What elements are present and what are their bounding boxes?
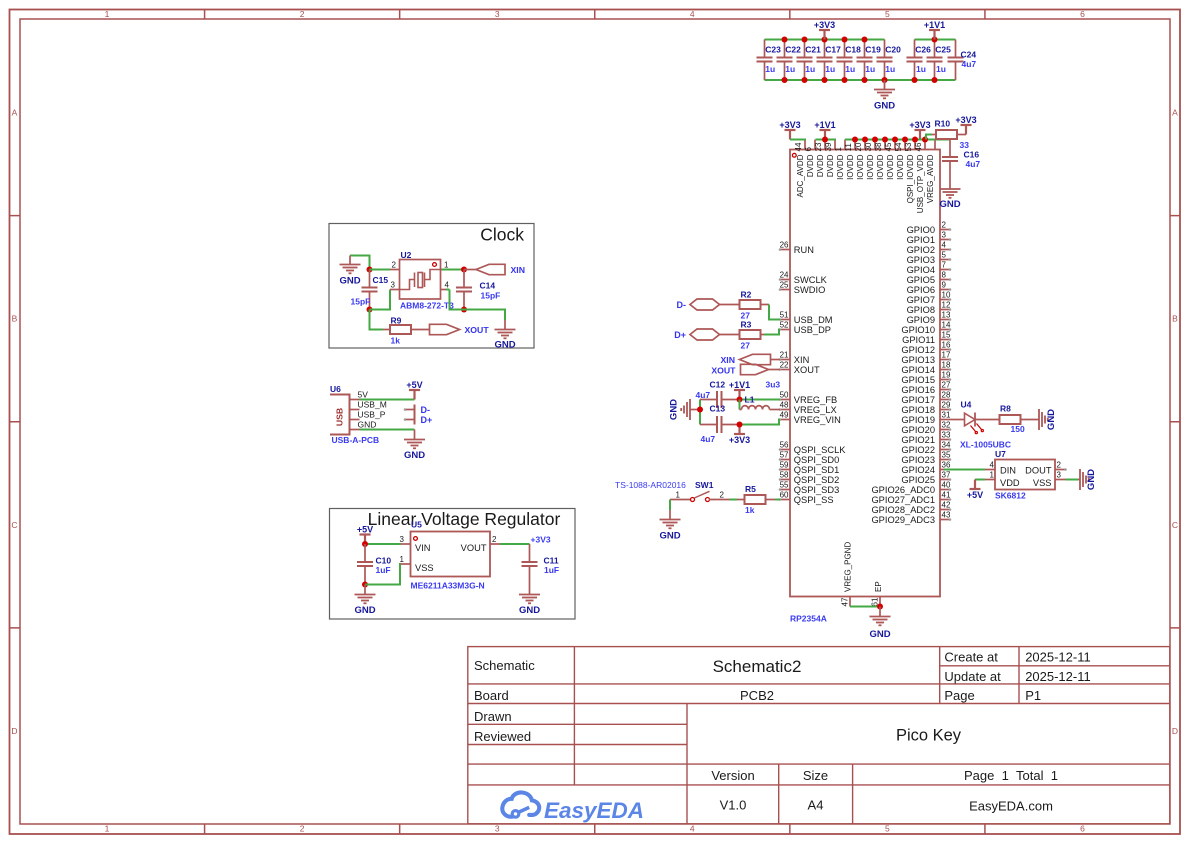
ground at U7 VSS xyxy=(1078,469,1097,490)
svg-text:VOUT: VOUT xyxy=(461,543,487,553)
capacitor C22 1u xyxy=(777,40,802,81)
pin 10 GPIO7 xyxy=(907,291,952,305)
svg-text:31: 31 xyxy=(942,411,951,420)
svg-text:22: 22 xyxy=(780,361,789,370)
svg-text:XIN: XIN xyxy=(794,355,810,365)
pin 54 IOVDD (top) xyxy=(894,140,905,180)
pin 49 VREG_VIN xyxy=(779,411,841,425)
svg-text:3: 3 xyxy=(391,281,396,290)
svg-text:XOUT: XOUT xyxy=(465,325,490,335)
svg-text:SWDIO: SWDIO xyxy=(794,285,826,295)
wire IOVDD +3V3 rail xyxy=(845,137,950,143)
capacitor C15 15pF xyxy=(351,267,389,313)
svg-text:GPIO20: GPIO20 xyxy=(901,425,935,435)
svg-text:19: 19 xyxy=(942,371,951,380)
svg-text:42: 42 xyxy=(942,501,951,510)
wire VREG_FB xyxy=(737,397,781,410)
svg-text:2: 2 xyxy=(300,9,305,19)
pin 18 GPIO14 xyxy=(901,361,951,375)
pin 47 VREG_AVDD (top) xyxy=(926,140,935,204)
svg-text:18: 18 xyxy=(942,361,951,370)
pin 42 GPIO28_ADC2 xyxy=(871,501,951,515)
svg-text:GPIO11: GPIO11 xyxy=(902,335,935,345)
svg-text:24: 24 xyxy=(780,271,789,280)
power flag +3V3 at VREG_VIN xyxy=(729,425,750,446)
svg-text:52: 52 xyxy=(780,321,789,330)
svg-text:D: D xyxy=(1172,726,1178,736)
svg-text:C24: C24 xyxy=(961,50,977,60)
svg-text:C20: C20 xyxy=(885,45,901,55)
svg-text:C21: C21 xyxy=(805,45,821,55)
svg-text:GPIO24: GPIO24 xyxy=(901,465,935,475)
svg-text:56: 56 xyxy=(780,441,789,450)
pin 43 GPIO29_ADC3 xyxy=(871,511,951,525)
capacitor C10 1uF xyxy=(357,544,391,588)
svg-text:XIN: XIN xyxy=(721,355,735,365)
power flag +5V at regulator xyxy=(357,525,373,545)
svg-text:40: 40 xyxy=(942,481,951,490)
pin 47 VREG_PGND (bottom) xyxy=(841,542,853,607)
svg-text:4: 4 xyxy=(942,241,947,250)
svg-text:48: 48 xyxy=(780,401,789,410)
svg-text:VREG_PGND: VREG_PGND xyxy=(844,542,853,592)
svg-text:GND: GND xyxy=(874,100,895,111)
svg-text:GND: GND xyxy=(1086,469,1097,490)
svg-text:4: 4 xyxy=(990,461,995,470)
svg-text:B: B xyxy=(12,314,18,324)
pin 20 IOVDD (top) xyxy=(854,140,865,180)
svg-text:150: 150 xyxy=(1011,424,1025,434)
title block table xyxy=(468,647,1170,824)
pin 44 ADC_AVDD (top) xyxy=(794,140,805,198)
pin 38 IOVDD (top) xyxy=(874,140,885,180)
svg-text:GPIO21: GPIO21 xyxy=(901,435,935,445)
svg-text:VREG_FB: VREG_FB xyxy=(794,395,837,405)
svg-text:2: 2 xyxy=(720,491,725,500)
svg-text:QSPI_SS: QSPI_SS xyxy=(794,495,834,505)
svg-text:2: 2 xyxy=(1057,461,1062,470)
svg-text:1k: 1k xyxy=(745,505,755,515)
wire VREG filter vertical xyxy=(697,400,703,425)
svg-text:GPIO10: GPIO10 xyxy=(901,325,935,335)
capacitor C23 1u xyxy=(757,40,782,81)
LED U4 XL-1005UBC xyxy=(960,400,1011,450)
svg-text:C15: C15 xyxy=(373,275,389,285)
wire U6 5V to +5V xyxy=(360,399,415,401)
svg-text:27: 27 xyxy=(741,341,751,351)
svg-text:7: 7 xyxy=(942,261,947,270)
svg-text:GND: GND xyxy=(404,450,425,461)
pin 33 GPIO21 xyxy=(901,431,951,445)
wire GND rail of capacitor bank xyxy=(765,79,956,81)
svg-text:1u: 1u xyxy=(916,64,926,74)
svg-text:DVDD: DVDD xyxy=(826,154,835,177)
pin 27 GPIO16 xyxy=(901,381,951,395)
pin 58 QSPI_SD2 xyxy=(779,471,840,485)
svg-text:R8: R8 xyxy=(1000,404,1011,414)
pin 53 QSPI_IOVDD (top) xyxy=(904,140,915,204)
svg-text:U2: U2 xyxy=(401,250,412,260)
svg-text:37: 37 xyxy=(942,471,951,480)
power flag +5V at U7 VDD xyxy=(967,480,985,501)
svg-text:15pF: 15pF xyxy=(481,291,501,301)
svg-text:36: 36 xyxy=(942,461,951,470)
svg-text:GPIO3: GPIO3 xyxy=(907,255,935,265)
svg-text:17: 17 xyxy=(942,351,951,360)
capacitor C14 15pF xyxy=(456,270,500,313)
svg-text:C25: C25 xyxy=(935,45,951,55)
svg-text:R10: R10 xyxy=(935,119,951,129)
svg-text:Pico Key: Pico Key xyxy=(896,727,962,745)
svg-text:2: 2 xyxy=(942,221,947,230)
svg-text:DIN: DIN xyxy=(1000,466,1016,476)
wire U6 GND xyxy=(360,430,415,440)
svg-text:1: 1 xyxy=(676,491,681,500)
svg-text:XOUT: XOUT xyxy=(794,365,820,375)
svg-text:USB_M: USB_M xyxy=(358,400,387,410)
svg-text:GND: GND xyxy=(659,531,680,542)
svg-text:C22: C22 xyxy=(785,45,801,55)
svg-text:1u: 1u xyxy=(845,64,855,74)
svg-text:1u: 1u xyxy=(825,64,835,74)
pin 57 QSPI_SD0 xyxy=(779,451,840,465)
svg-text:GPIO28_ADC2: GPIO28_ADC2 xyxy=(871,505,935,515)
pin 61 EP (bottom) xyxy=(871,581,884,606)
pin 32 GPIO20 xyxy=(901,421,951,435)
pin 55 QSPI_SD3 xyxy=(779,481,840,495)
svg-text:D-: D- xyxy=(421,405,431,415)
pin 13 GPIO9 xyxy=(907,311,952,325)
wire +5V to U5 VIN xyxy=(362,541,401,547)
svg-text:USB_P: USB_P xyxy=(358,410,386,420)
power flag +1V1 capacitor bank xyxy=(924,20,945,40)
svg-text:1: 1 xyxy=(444,261,449,270)
resistor R10 33 xyxy=(932,119,969,151)
svg-text:38: 38 xyxy=(874,142,883,151)
svg-text:GND: GND xyxy=(358,420,377,430)
pin 40 GPIO26_ADC0 xyxy=(871,481,951,495)
svg-text:USB_DM: USB_DM xyxy=(794,315,833,325)
svg-text:47: 47 xyxy=(841,597,850,606)
svg-text:+3V3: +3V3 xyxy=(814,20,835,30)
svg-text:30: 30 xyxy=(864,142,873,151)
svg-text:5: 5 xyxy=(885,9,890,19)
svg-text:EP: EP xyxy=(874,581,883,592)
ground below C16 xyxy=(939,189,960,210)
svg-text:GPIO0: GPIO0 xyxy=(907,225,935,235)
svg-text:U5: U5 xyxy=(411,520,422,530)
svg-text:28: 28 xyxy=(942,391,951,400)
svg-text:+3V3: +3V3 xyxy=(955,115,976,125)
svg-text:D: D xyxy=(11,726,17,736)
svg-text:9: 9 xyxy=(942,281,947,290)
svg-text:TS-1088-AR02016: TS-1088-AR02016 xyxy=(615,480,686,490)
svg-text:+3V3: +3V3 xyxy=(779,120,800,130)
wire C10 to U5 VSS xyxy=(365,564,401,585)
svg-text:Clock: Clock xyxy=(480,225,524,245)
pin 41 GPIO27_ADC1 xyxy=(871,491,951,505)
pin 52 USB_DP xyxy=(779,321,831,335)
svg-text:IOVDD: IOVDD xyxy=(886,154,895,180)
svg-text:13: 13 xyxy=(942,311,951,320)
svg-text:C11: C11 xyxy=(544,556,559,566)
svg-text:Linear Voltage Regulator: Linear Voltage Regulator xyxy=(368,509,561,529)
svg-text:Update at: Update at xyxy=(944,669,1001,684)
svg-text:4u7: 4u7 xyxy=(966,159,981,169)
svg-text:IOVDD: IOVDD xyxy=(876,154,885,180)
svg-text:+1V1: +1V1 xyxy=(729,380,750,390)
pin 16 GPIO12 xyxy=(901,341,951,355)
svg-text:Schematic2: Schematic2 xyxy=(713,657,802,676)
svg-text:27: 27 xyxy=(942,381,951,390)
wire VREG_PGND to EP xyxy=(850,604,883,610)
svg-text:GPIO1: GPIO1 xyxy=(907,235,935,245)
svg-text:GPIO27_ADC1: GPIO27_ADC1 xyxy=(871,495,935,505)
svg-text:C12: C12 xyxy=(710,380,726,390)
pin 12 GPIO8 xyxy=(907,301,952,315)
svg-text:EasyEDA: EasyEDA xyxy=(544,798,644,823)
svg-text:1: 1 xyxy=(105,824,110,834)
pin 11 IOVDD (top) xyxy=(844,140,855,180)
svg-text:GPIO6: GPIO6 xyxy=(907,285,935,295)
power flag +3V3 capacitor bank xyxy=(814,20,835,40)
port D+ (to IC) xyxy=(674,329,739,340)
svg-text:+5V: +5V xyxy=(967,490,983,500)
svg-text:SWCLK: SWCLK xyxy=(794,275,828,285)
svg-text:U6: U6 xyxy=(330,384,341,394)
pin 37 GPIO25 xyxy=(901,471,951,485)
svg-text:USB_OTP_VDD: USB_OTP_VDD xyxy=(916,154,925,213)
svg-text:4: 4 xyxy=(690,824,695,834)
svg-text:54: 54 xyxy=(894,142,903,151)
svg-text:U4: U4 xyxy=(961,400,972,410)
wire C15 to U2 pin 2 xyxy=(370,269,391,271)
pin 56 QSPI_SCLK xyxy=(779,441,847,455)
wire U5 VOUT to +3V3 xyxy=(500,543,530,545)
svg-text:3: 3 xyxy=(1057,471,1062,480)
wire GPIO24 to U7 DIN xyxy=(944,469,985,471)
svg-text:C26: C26 xyxy=(915,45,931,55)
ground below EP xyxy=(869,607,890,641)
pin 4 GPIO2 xyxy=(907,241,952,255)
capacitor C12 4u7 xyxy=(696,380,740,409)
power flag +3V3 at R10 xyxy=(955,115,976,135)
svg-text:GPIO9: GPIO9 xyxy=(907,315,935,325)
svg-text:R2: R2 xyxy=(741,290,752,300)
svg-text:57: 57 xyxy=(780,451,789,460)
pin 7 GPIO4 xyxy=(907,261,952,275)
svg-text:+1V1: +1V1 xyxy=(814,120,835,130)
svg-text:C14: C14 xyxy=(480,281,496,291)
svg-text:A: A xyxy=(12,108,18,118)
pin 1 IOVDD (top) xyxy=(834,140,845,180)
svg-text:C10: C10 xyxy=(376,556,392,566)
svg-text:GPIO2: GPIO2 xyxy=(907,245,935,255)
pin 24 SWCLK xyxy=(779,271,828,285)
wire +1V1 DVDD rail xyxy=(816,137,837,143)
svg-text:1: 1 xyxy=(400,555,405,564)
svg-text:GPIO13: GPIO13 xyxy=(901,355,935,365)
power flag +3V3 at IOVDD rail xyxy=(909,120,930,140)
svg-text:43: 43 xyxy=(942,511,951,520)
section box Clock xyxy=(329,224,534,349)
pin 14 GPIO10 xyxy=(901,321,951,335)
svg-text:GPIO17: GPIO17 xyxy=(901,395,935,405)
ground at C15 xyxy=(339,256,369,287)
pin 8 GPIO5 xyxy=(907,271,952,285)
svg-text:GPIO12: GPIO12 xyxy=(901,345,935,355)
power flag +3V3 at ADC_AVDD xyxy=(779,120,800,140)
svg-text:Create at: Create at xyxy=(944,650,998,665)
wire C15 to U2 pin 3 xyxy=(370,290,391,310)
wire VREG_AVDD to R10 xyxy=(926,135,932,140)
svg-text:2025-12-11: 2025-12-11 xyxy=(1025,669,1091,684)
svg-text:USB_DP: USB_DP xyxy=(794,325,831,335)
net flag D+ at U6 xyxy=(404,415,433,426)
pin 6 DVDD (top) xyxy=(804,140,815,178)
resistor R8 150 xyxy=(1000,404,1040,435)
wire U2 pin1 to XIN port xyxy=(442,267,477,273)
svg-text:+3V3: +3V3 xyxy=(531,535,551,545)
capacitor C17 1u xyxy=(817,40,842,81)
svg-text:VREG_VIN: VREG_VIN xyxy=(794,415,841,425)
svg-text:C23: C23 xyxy=(765,45,781,55)
svg-text:4u7: 4u7 xyxy=(696,390,711,400)
svg-text:C13: C13 xyxy=(710,404,726,414)
pin 39 DVDD (top) xyxy=(824,140,835,178)
pin 19 GPIO15 xyxy=(901,371,951,385)
svg-text:Drawn: Drawn xyxy=(474,709,512,724)
port XIN (to IC) xyxy=(721,354,780,365)
capacitor C20 1u xyxy=(877,40,902,81)
svg-text:GPIO23: GPIO23 xyxy=(901,455,935,465)
svg-text:44: 44 xyxy=(794,142,803,151)
svg-text:GND: GND xyxy=(669,399,680,420)
resistor R9 1k xyxy=(383,316,430,346)
svg-text:D+: D+ xyxy=(421,415,433,425)
pin 35 GPIO23 xyxy=(901,451,951,465)
svg-text:A4: A4 xyxy=(808,798,824,813)
resistor R5 1k xyxy=(737,484,775,515)
svg-text:EasyEDA.com: EasyEDA.com xyxy=(969,799,1053,814)
pin 2 GPIO0 xyxy=(907,221,952,235)
svg-text:ABM8-272-T3: ABM8-272-T3 xyxy=(400,301,454,311)
port D- (to IC) xyxy=(677,299,740,310)
svg-text:11: 11 xyxy=(844,143,853,152)
svg-text:IOVDD: IOVDD xyxy=(846,154,855,180)
svg-text:4: 4 xyxy=(445,281,450,290)
capacitor C25 1u xyxy=(927,40,952,81)
pin 34 GPIO22 xyxy=(901,441,951,455)
pin 23 DVDD (top) xyxy=(814,140,825,178)
svg-text:RUN: RUN xyxy=(794,245,814,255)
svg-text:32: 32 xyxy=(942,421,951,430)
svg-text:39: 39 xyxy=(824,142,833,151)
wire R2 to USB_DM xyxy=(769,305,780,320)
svg-text:GPIO25: GPIO25 xyxy=(901,475,935,485)
pin 25 SWDIO xyxy=(779,281,826,295)
svg-text:IOVDD: IOVDD xyxy=(856,154,865,180)
svg-text:1uF: 1uF xyxy=(376,565,391,575)
svg-text:QSPI_SD2: QSPI_SD2 xyxy=(794,475,839,485)
svg-text:GND: GND xyxy=(1046,409,1057,430)
svg-text:GPIO26_ADC0: GPIO26_ADC0 xyxy=(871,485,935,495)
svg-text:DVDD: DVDD xyxy=(806,154,815,177)
svg-text:VSS: VSS xyxy=(415,563,434,573)
svg-text:3: 3 xyxy=(942,231,947,240)
svg-text:C19: C19 xyxy=(865,45,881,55)
capacitor C11 1uF xyxy=(522,544,560,595)
svg-text:45: 45 xyxy=(884,142,893,151)
svg-text:VREG_AVDD: VREG_AVDD xyxy=(926,154,935,203)
svg-text:26: 26 xyxy=(780,241,789,250)
svg-text:10: 10 xyxy=(942,291,951,300)
svg-text:46: 46 xyxy=(914,142,923,151)
ground at U6 xyxy=(404,440,425,462)
ground at C14 xyxy=(494,330,515,351)
svg-text:+1V1: +1V1 xyxy=(924,20,945,30)
svg-text:GPIO16: GPIO16 xyxy=(901,385,935,395)
svg-text:GND: GND xyxy=(354,605,375,616)
capacitor C19 1u xyxy=(857,40,882,81)
pin 3 GPIO1 xyxy=(907,231,952,245)
svg-text:3: 3 xyxy=(495,824,500,834)
pin 60 QSPI_SS xyxy=(779,491,834,505)
svg-text:GPIO18: GPIO18 xyxy=(901,405,935,415)
svg-text:VREG_LX: VREG_LX xyxy=(794,405,837,415)
wire U2 pin4 to GND xyxy=(446,290,505,330)
port XOUT (clock) xyxy=(430,324,490,335)
svg-text:Page: Page xyxy=(944,688,974,703)
svg-text:60: 60 xyxy=(780,491,789,500)
svg-text:1u: 1u xyxy=(936,64,946,74)
svg-text:RP2354A: RP2354A xyxy=(790,614,827,624)
svg-text:VIN: VIN xyxy=(415,543,431,553)
resistor R3 27 xyxy=(740,320,765,351)
svg-text:D+: D+ xyxy=(674,330,686,340)
svg-text:GPIO4: GPIO4 xyxy=(907,265,935,275)
svg-text:QSPI_IOVDD: QSPI_IOVDD xyxy=(906,154,915,203)
svg-text:SW1: SW1 xyxy=(695,480,714,490)
svg-text:15pF: 15pF xyxy=(351,297,371,307)
svg-text:2: 2 xyxy=(492,535,497,544)
svg-text:6: 6 xyxy=(1080,824,1085,834)
svg-text:35: 35 xyxy=(942,451,951,460)
svg-text:A: A xyxy=(1172,108,1178,118)
svg-text:XOUT: XOUT xyxy=(711,366,736,376)
wire R3 to USB_DP xyxy=(764,330,780,335)
svg-text:VSS: VSS xyxy=(1033,478,1052,488)
pin 48 VREG_LX xyxy=(779,401,837,415)
svg-text:Version: Version xyxy=(711,768,754,783)
svg-text:+3V3: +3V3 xyxy=(729,435,750,445)
svg-text:QSPI_SD0: QSPI_SD0 xyxy=(794,455,839,465)
svg-text:USB-A-PCB: USB-A-PCB xyxy=(332,435,380,445)
capacitor C13 4u7 xyxy=(700,404,740,445)
svg-text:Size: Size xyxy=(803,768,828,783)
svg-text:XIN: XIN xyxy=(511,265,525,275)
wire R5 to QSPI_SS xyxy=(775,499,780,501)
svg-text:C: C xyxy=(11,520,17,530)
ground at SW1 xyxy=(659,520,680,542)
crystal U2 ABM8-272-T3 xyxy=(390,250,454,311)
svg-text:QSPI_SD3: QSPI_SD3 xyxy=(794,485,839,495)
pin 45 IOVDD (top) xyxy=(884,140,895,180)
svg-text:R5: R5 xyxy=(745,484,756,494)
svg-text:1u: 1u xyxy=(885,64,895,74)
svg-text:3: 3 xyxy=(400,535,405,544)
pin 50 VREG_FB xyxy=(779,391,838,405)
